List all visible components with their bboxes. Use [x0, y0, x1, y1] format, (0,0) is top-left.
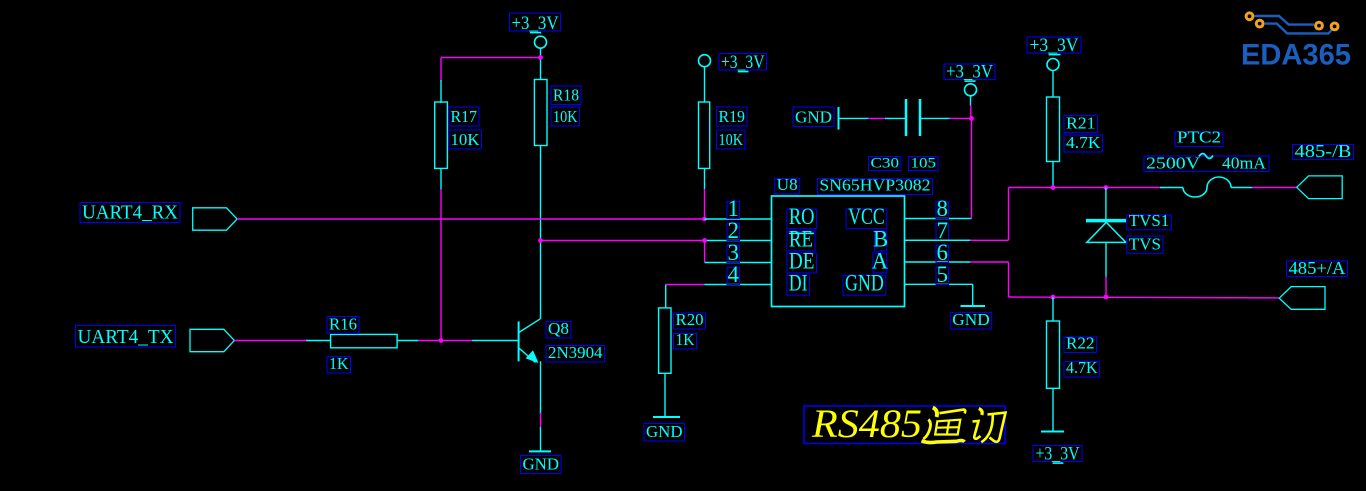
transistor Q8	[472, 319, 541, 414]
resistor R18	[534, 80, 547, 146]
junction	[969, 116, 974, 121]
value TVS	[1127, 234, 1163, 253]
svg-text:C30: C30	[871, 156, 900, 172]
value 2N3904	[546, 343, 605, 362]
wire	[541, 240, 705, 242]
pin name RO	[787, 204, 817, 229]
label UART4_RX	[80, 202, 180, 224]
port UART4_RX	[193, 208, 237, 230]
wire	[441, 57, 541, 59]
svg-text:485-/B: 485-/B	[1295, 141, 1352, 161]
value 4.7K (R22)	[1064, 358, 1100, 377]
wire	[440, 58, 442, 82]
power +3_3V (over R18)	[510, 13, 561, 80]
pin name B	[873, 226, 888, 251]
svg-text:10K: 10K	[553, 107, 578, 126]
resistor R22	[1047, 297, 1060, 432]
pin number 2	[727, 218, 740, 243]
svg-text:1K: 1K	[329, 354, 349, 373]
junction	[702, 217, 707, 222]
wire	[970, 105, 973, 219]
wire	[970, 262, 1279, 298]
pin number 3	[727, 240, 740, 265]
logo trace upper	[1255, 16, 1315, 25]
junction	[1104, 295, 1109, 300]
label GND (C30)	[793, 107, 834, 127]
resistor R20	[659, 308, 671, 416]
label GND (Q8)	[521, 455, 562, 474]
svg-text:RO: RO	[789, 204, 815, 229]
svg-text:2500V: 2500V	[1146, 154, 1201, 173]
power +3_3V (VCC)	[944, 62, 995, 107]
ground	[838, 107, 840, 130]
label R22	[1064, 334, 1097, 353]
svg-text:R21: R21	[1066, 114, 1096, 133]
svg-text:RS485: RS485	[811, 401, 922, 446]
svg-text:1K: 1K	[676, 330, 696, 349]
svg-text:+3_3V: +3_3V	[512, 13, 559, 34]
svg-text:2N3904: 2N3904	[548, 343, 603, 362]
wire	[540, 427, 542, 451]
label U8	[775, 175, 800, 194]
svg-text:U8: U8	[777, 175, 798, 194]
wire	[540, 146, 542, 319]
junction	[1051, 295, 1056, 300]
power +3_3V (over R21)	[1027, 35, 1081, 97]
label TVS1	[1127, 211, 1172, 230]
svg-text:EDA365: EDA365	[1241, 39, 1351, 72]
label UART4_TX	[76, 326, 176, 349]
wire	[704, 241, 706, 263]
wire	[234, 340, 308, 342]
svg-text:+3_3V: +3_3V	[946, 62, 993, 83]
wire	[950, 117, 972, 119]
svg-text:4.7K: 4.7K	[1066, 358, 1098, 377]
pin number 4	[727, 262, 740, 287]
svg-text:GND: GND	[795, 108, 832, 127]
svg-text:+3_3V: +3_3V	[1030, 35, 1079, 56]
svg-text:R19: R19	[719, 107, 746, 126]
title hanzi TONG	[922, 408, 966, 443]
junction	[702, 238, 707, 243]
wire	[839, 117, 870, 119]
pin name RE	[787, 226, 815, 251]
label PTC2	[1175, 128, 1223, 147]
junction	[1104, 185, 1109, 190]
pin name RE overline	[789, 232, 814, 234]
pin 3 lead	[705, 262, 772, 264]
title hanzi XUN	[973, 409, 1006, 443]
svg-text:TVS1: TVS1	[1129, 211, 1170, 230]
svg-text:R17: R17	[451, 107, 478, 126]
wire	[666, 284, 705, 286]
label 485+/A	[1287, 258, 1348, 278]
value 10K (R19)	[717, 130, 746, 149]
svg-text:R18: R18	[553, 86, 579, 105]
port 485-/B	[1297, 176, 1343, 199]
svg-text:VCC: VCC	[848, 204, 885, 229]
svg-text:TVS: TVS	[1129, 234, 1161, 253]
pin name DE	[787, 248, 817, 273]
svg-text:105: 105	[911, 156, 937, 172]
pin 5 lead	[905, 283, 973, 285]
svg-text:10K: 10K	[719, 130, 744, 149]
logo pad 4	[1331, 23, 1338, 30]
label GND (pin5)	[950, 310, 991, 329]
title RS485 (box + latin)	[804, 401, 1005, 446]
pin 2 lead	[705, 240, 772, 242]
svg-text:R20: R20	[676, 310, 704, 329]
svg-text:+3_3V: +3_3V	[1036, 444, 1080, 465]
resistor R17	[435, 80, 448, 190]
label R19	[717, 107, 748, 126]
wire	[1252, 187, 1297, 189]
pin 1 lead	[704, 218, 771, 220]
wire	[868, 117, 886, 119]
pin 8 lead	[905, 218, 972, 220]
logo pad 3	[1316, 22, 1323, 29]
junction	[439, 338, 444, 343]
op-amp U8 body	[772, 196, 905, 307]
wire	[540, 413, 542, 428]
wire	[970, 188, 1165, 241]
pin number 6	[936, 240, 949, 265]
resistor R21	[1047, 97, 1060, 187]
value 4.7K (R21)	[1064, 133, 1103, 152]
pin 7 lead	[905, 239, 971, 241]
junction	[1051, 185, 1056, 190]
svg-text:10K: 10K	[451, 130, 481, 149]
wire	[441, 340, 472, 342]
value 10K (R17)	[449, 130, 482, 149]
svg-text:A: A	[872, 248, 889, 273]
svg-text:GND: GND	[952, 310, 989, 329]
logo text EDA365	[1241, 39, 1351, 72]
label R20	[674, 310, 706, 329]
label R16	[327, 315, 359, 334]
wire	[418, 340, 441, 342]
value 1K (R16)	[327, 354, 351, 373]
value 1K (R20)	[674, 330, 697, 349]
label R17	[449, 107, 480, 126]
svg-text:R16: R16	[329, 315, 357, 334]
label GND (R20)	[644, 422, 685, 441]
logo trace lower	[1265, 24, 1332, 34]
value 10K (R18)	[551, 107, 580, 126]
pin name GND	[843, 271, 886, 296]
junction	[538, 238, 543, 243]
svg-text:4: 4	[728, 262, 740, 287]
pin 6 lead	[905, 261, 971, 263]
wire	[905, 239, 971, 241]
svg-text:4.7K: 4.7K	[1066, 133, 1101, 152]
svg-text:SN65HVP3082: SN65HVP3082	[819, 175, 930, 194]
label R21	[1064, 114, 1098, 133]
pin number 5	[936, 262, 949, 287]
wire	[704, 189, 706, 219]
value 2500V~ 40mA	[1144, 154, 1269, 173]
svg-text:40mA: 40mA	[1222, 154, 1267, 173]
port 485+/A	[1279, 287, 1325, 310]
pin number 1	[727, 196, 740, 221]
value 105	[909, 156, 939, 172]
svg-text:UART4_TX: UART4_TX	[78, 326, 175, 348]
svg-text:DI: DI	[789, 271, 808, 296]
wire	[237, 218, 704, 220]
svg-text:R22: R22	[1066, 334, 1095, 353]
svg-text:DE: DE	[789, 248, 815, 273]
svg-text:GND: GND	[845, 271, 884, 296]
wire	[665, 285, 667, 309]
ground	[961, 305, 986, 307]
svg-text:UART4_RX: UART4_RX	[82, 202, 179, 224]
ground	[529, 450, 551, 452]
value SN65HVP3082	[817, 175, 932, 194]
label R18	[551, 86, 581, 105]
wire	[440, 189, 442, 341]
pin name DI	[787, 271, 810, 296]
label C30	[869, 156, 902, 172]
svg-text:PTC2: PTC2	[1177, 128, 1221, 147]
label Q8	[546, 319, 571, 338]
port UART4_TX	[190, 329, 234, 351]
svg-text:5: 5	[937, 262, 949, 287]
power +3_3V (under R22)	[1033, 432, 1082, 465]
pin 4 lead	[704, 284, 771, 286]
fuse PTC2	[1160, 177, 1253, 197]
pin name A	[872, 248, 889, 273]
pin name VCC	[846, 204, 887, 229]
svg-text:485+/A: 485+/A	[1289, 258, 1346, 278]
svg-text:+3_3V: +3_3V	[721, 52, 765, 73]
wire	[972, 284, 974, 306]
svg-text:GND: GND	[646, 422, 683, 441]
resistor R19	[699, 102, 710, 190]
power +3_3V (over R19)	[699, 52, 767, 102]
resistor R16	[306, 334, 419, 347]
svg-text:Q8: Q8	[548, 319, 569, 338]
svg-text:GND: GND	[523, 455, 560, 474]
capacitor C30	[885, 99, 951, 136]
ground	[653, 416, 680, 418]
logo pad 2	[1256, 20, 1263, 27]
junction	[538, 55, 543, 60]
pin number 7	[936, 218, 949, 243]
diode TVS1	[1086, 188, 1126, 298]
logo pad 1	[1246, 13, 1253, 20]
pin number 8	[936, 196, 949, 221]
label 485-/B	[1293, 141, 1354, 161]
